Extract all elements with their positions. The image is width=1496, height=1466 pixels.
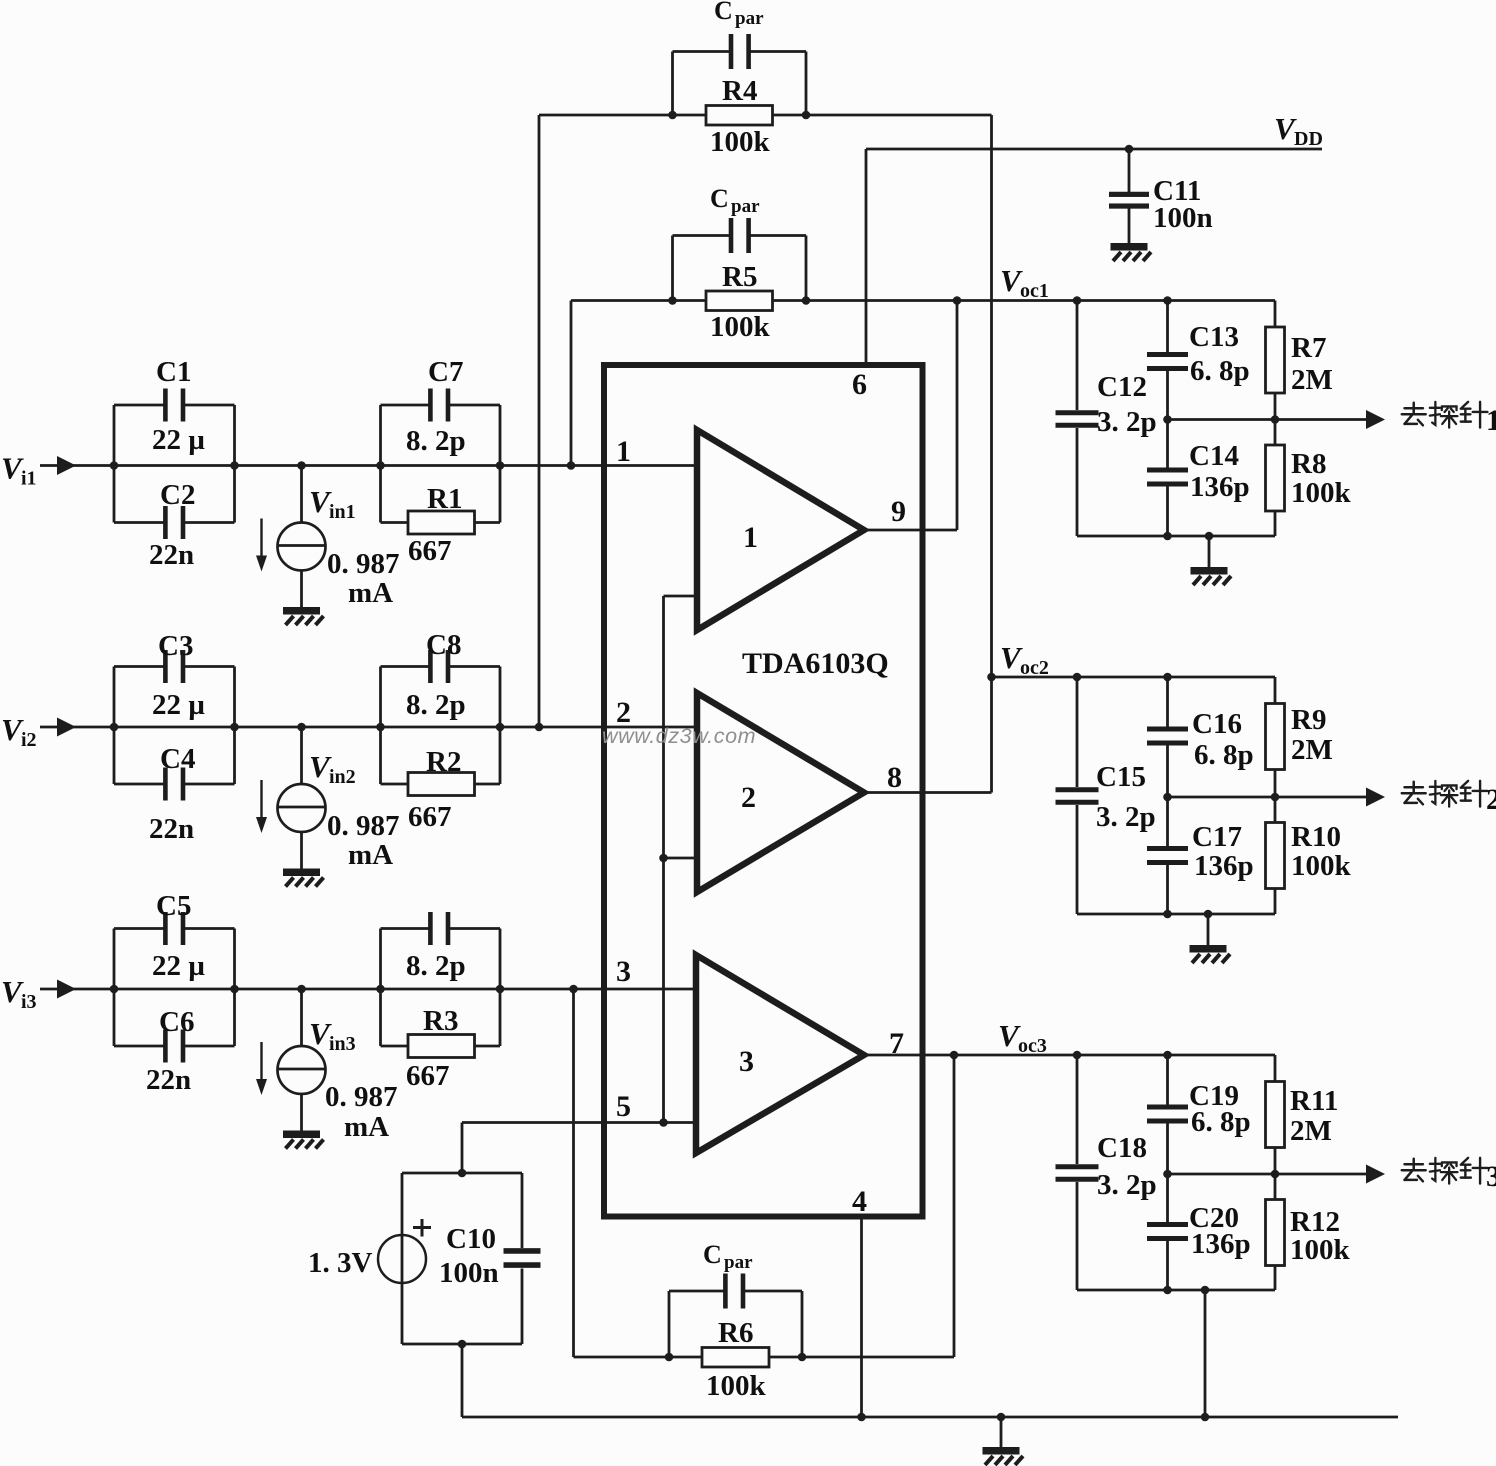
resistor R11 2M [1274,1055,1277,1082]
capacitor C8 8.2p [428,650,433,683]
capacitor C6 22n [163,1030,168,1063]
capacitor C14 136p [1166,420,1169,469]
resistor R8 100k [1274,420,1277,446]
wire [1077,535,1275,538]
junction [1163,415,1172,424]
wire [671,236,674,301]
svg-text:6. 8p: 6. 8p [1194,739,1254,771]
wire [462,1416,1398,1419]
wire [1168,796,1367,799]
ground [1111,243,1152,261]
junction [1125,145,1134,154]
svg-text:C8: C8 [426,629,461,661]
svg-text:5: 5 [616,1090,631,1123]
wire [671,52,674,116]
junction [659,854,668,863]
capacitor C4 22n [163,768,168,801]
svg-text:2: 2 [1486,783,1496,816]
capacitor C9 8.2p [428,912,433,945]
svg-text:R5: R5 [722,261,757,293]
svg-text:R8: R8 [1291,448,1326,480]
svg-text:667: 667 [406,1060,450,1092]
svg-text:C12: C12 [1097,371,1147,403]
capacitor C11 100n [1128,149,1131,192]
junction [458,1169,467,1178]
svg-text:R9: R9 [1291,704,1326,736]
resistor R5 100k [706,291,773,311]
svg-text:100k: 100k [1291,850,1352,882]
svg-text:mA: mA [348,839,393,871]
svg-text:8. 2p: 8. 2p [406,689,466,721]
wire [539,114,706,117]
wire [113,667,116,785]
resistor R10 100k [1274,797,1277,823]
svg-text:3: 3 [616,955,631,988]
junction [987,673,996,682]
svg-text:0. 987: 0. 987 [327,548,400,580]
capacitor C10 100n [504,1248,541,1254]
capacitor C18 3.2p [1076,1055,1079,1164]
svg-text:C: C [710,184,729,213]
svg-text:i1: i1 [21,468,37,490]
op-amp IC TDA6103Q outline [604,365,923,1217]
svg-text:par: par [731,196,760,217]
wire [570,301,573,466]
junction [1073,296,1082,305]
wire [956,301,959,531]
wire [40,726,697,729]
wire [1077,913,1275,916]
current source 0.987 mA [300,466,303,523]
wire [1204,1290,1207,1417]
svg-text:C13: C13 [1189,321,1239,353]
svg-text:0. 987: 0. 987 [325,1081,398,1113]
svg-text:2M: 2M [1290,1115,1332,1147]
wire [571,299,706,302]
svg-text:C17: C17 [1192,821,1242,853]
svg-text:R1: R1 [427,483,462,515]
capacitor C15 3.2p [1076,677,1079,787]
svg-text:C1: C1 [156,356,191,388]
ground [1208,536,1211,567]
svg-text:3: 3 [1486,1160,1496,1193]
junction [110,985,578,994]
resistor R3 667 [408,1035,475,1058]
svg-text:C: C [703,1240,722,1269]
wire [402,1172,522,1175]
svg-text:2: 2 [741,781,756,814]
capacitor C13 6.8p [1166,301,1169,353]
resistor R9 2M [1274,677,1277,704]
svg-text:6. 8p: 6. 8p [1190,355,1250,387]
node Voc2 [992,676,1276,679]
capacitor C3 22u [163,650,168,683]
capacitor C2 22n [163,506,168,539]
ground [283,607,324,625]
svg-text:22n: 22n [149,539,194,571]
svg-text:C: C [714,0,733,25]
svg-text:par: par [735,8,764,29]
svg-text:C18: C18 [1097,1132,1147,1164]
svg-text:22 µ: 22 µ [152,950,205,982]
svg-text:667: 667 [408,535,452,567]
svg-text:R6: R6 [718,1317,753,1349]
ground [283,1131,324,1149]
capacitor C20 136p [1166,1174,1169,1223]
svg-text:3. 2p: 3. 2p [1097,406,1157,438]
node VDD [866,148,1322,151]
op-amp 1 [697,430,864,630]
svg-text:136p: 136p [1190,471,1250,503]
capacitor C7 8.2p [428,389,433,422]
node probe 2 [1402,782,1426,805]
wire [953,1055,956,1357]
svg-text:TDA6103Q: TDA6103Q [742,647,889,680]
resistor R4 100k [706,106,773,126]
svg-text:100k: 100k [710,311,771,343]
capacitor Cpar (R5) [729,218,734,253]
junction [950,1051,959,1060]
svg-text:2M: 2M [1291,734,1333,766]
wire [40,464,697,467]
wire [668,1291,671,1357]
svg-text:C5: C5 [156,890,191,922]
op-amp 2 [697,693,864,892]
svg-text:R7: R7 [1291,332,1326,364]
wire [572,989,575,1357]
junction [1163,1170,1172,1179]
svg-text:3. 2p: 3. 2p [1097,1169,1157,1201]
svg-text:3. 2p: 3. 2p [1096,801,1156,833]
svg-text:C10: C10 [446,1223,496,1255]
node probe 3 [1402,1159,1426,1182]
svg-text:C15: C15 [1096,761,1146,793]
svg-text:oc1: oc1 [1020,280,1049,302]
svg-text:R2: R2 [426,746,461,778]
svg-text:667: 667 [408,801,452,833]
svg-text:in1: in1 [329,501,356,523]
junction [668,296,677,305]
svg-text:0. 987: 0. 987 [327,810,400,842]
svg-text:8. 2p: 8. 2p [406,950,466,982]
svg-text:mA: mA [348,577,393,609]
capacitor Cpar (R6) [723,1274,728,1309]
svg-text:www.dz3w.com: www.dz3w.com [602,724,756,748]
capacitor C16 6.8p [1166,677,1169,727]
ground [1000,1417,1003,1447]
wire [1168,418,1367,421]
svg-text:oc3: oc3 [1018,1035,1047,1057]
resistor R1 667 [408,511,475,534]
svg-text:22 µ: 22 µ [152,689,205,721]
current source 0.987 mA [300,989,303,1046]
capacitor C1 22u [163,389,168,422]
svg-text:100n: 100n [1153,202,1213,234]
junction [1163,793,1172,802]
svg-text:8. 2p: 8. 2p [406,425,466,457]
wire [379,405,382,523]
resistor R2 667 [408,773,475,796]
svg-text:1. 3V: 1. 3V [308,1247,373,1279]
svg-text:100k: 100k [710,126,771,158]
wire [40,988,697,991]
svg-text:oc2: oc2 [1020,657,1049,679]
svg-text:9: 9 [891,495,906,528]
wire [864,529,957,532]
wire [1077,1289,1275,1292]
junction [110,461,576,470]
wire [864,1054,954,1057]
capacitor C17 136p [1166,797,1169,847]
svg-text:6: 6 [852,368,867,401]
svg-text:C3: C3 [158,630,193,662]
svg-text:R11: R11 [1290,1085,1338,1117]
ground [283,869,324,887]
svg-text:C6: C6 [159,1006,194,1038]
op-amp 3 [696,955,864,1153]
capacitor C12 3.2p [1076,301,1079,411]
svg-text:mA: mA [344,1111,389,1143]
wire [860,1217,863,1418]
node Voc3 [954,1054,1275,1057]
svg-text:100n: 100n [439,1257,499,1289]
svg-text:1: 1 [1486,404,1496,437]
ground [1207,914,1210,945]
resistor R7 2M [1274,301,1277,328]
wire [864,791,992,794]
wire [113,929,116,1047]
wire [113,405,116,523]
svg-text:in3: in3 [329,1033,356,1055]
svg-text:R10: R10 [1291,821,1341,853]
svg-text:C7: C7 [428,356,463,388]
resistor R12 100k [1274,1174,1277,1200]
svg-text:1: 1 [616,435,631,468]
svg-text:DD: DD [1294,128,1323,150]
svg-text:4: 4 [852,1185,867,1218]
svg-text:i2: i2 [21,729,37,751]
junction [665,1353,674,1362]
wire [379,667,382,785]
svg-text:C16: C16 [1192,708,1242,740]
svg-text:136p: 136p [1191,1228,1251,1260]
svg-text:R4: R4 [722,75,757,107]
node probe 1 [1402,403,1426,426]
svg-text:8: 8 [887,761,902,794]
junction [857,1413,866,1422]
wire [990,115,993,793]
svg-text:i3: i3 [21,991,37,1013]
svg-text:R3: R3 [423,1005,458,1037]
svg-text:C2: C2 [160,479,195,511]
wire [865,149,868,365]
svg-text:C14: C14 [1189,440,1239,472]
wire [662,596,665,1123]
capacitor Cpar (R4) [729,34,734,69]
svg-text:22n: 22n [149,813,194,845]
svg-text:100k: 100k [1290,1234,1351,1266]
wire [538,115,541,727]
svg-text:22n: 22n [146,1064,191,1096]
svg-text:par: par [724,1252,753,1273]
svg-text:100k: 100k [706,1370,767,1402]
svg-text:3: 3 [739,1045,754,1078]
svg-text:100k: 100k [1291,477,1352,509]
capacitor C5 22u [163,912,168,945]
junction [668,111,677,120]
svg-text:1: 1 [743,521,758,554]
wire [462,1121,697,1124]
svg-text:in2: in2 [329,766,356,788]
svg-text:2M: 2M [1291,364,1333,396]
resistor R6 100k [702,1348,769,1368]
svg-text:22 µ: 22 µ [152,424,205,456]
capacitor C19 6.8p [1166,1055,1169,1105]
wire [574,1356,703,1359]
voltage source 1.3V [378,1235,426,1283]
svg-text:136p: 136p [1194,850,1254,882]
junction [110,723,544,732]
wire [1168,1173,1367,1176]
wire [379,929,382,1047]
svg-text:6. 8p: 6. 8p [1191,1106,1251,1138]
svg-text:C4: C4 [160,743,195,775]
current source 0.987 mA [300,727,303,784]
